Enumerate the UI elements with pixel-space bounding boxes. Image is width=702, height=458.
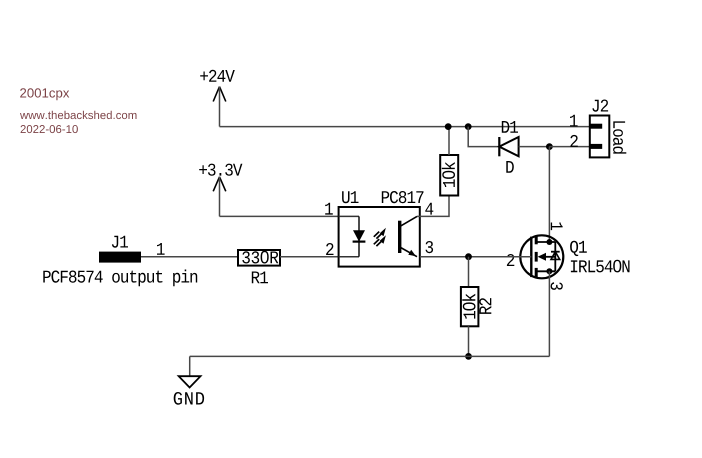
- resistor 10k pull-up: [440, 155, 458, 196]
- diode D1: [499, 137, 518, 156]
- resistor R1 330R: [238, 250, 280, 266]
- pin number 2 of U1: [326, 243, 333, 255]
- value 10k of pull-up resistor: [442, 162, 455, 187]
- wire bottom rail: [190, 355, 550, 357]
- wire +24V rail: [220, 126, 590, 128]
- wire opto internal pin2: [339, 256, 359, 258]
- pin number 2 of J2: [570, 135, 577, 147]
- light arrows inside U1: [374, 228, 386, 246]
- wire drain node to J2 pin2: [549, 146, 589, 148]
- wire opto internal pin1: [339, 215, 359, 217]
- label J2: [592, 100, 608, 112]
- optocoupler U1 box: [339, 207, 420, 267]
- resistor R2 10k: [461, 287, 479, 326]
- label +24V: [200, 70, 235, 82]
- pin number 1 of Q1: [551, 223, 563, 231]
- wire 10k to rail: [448, 127, 450, 155]
- pin number 1 of J1: [157, 243, 165, 255]
- pin number 1 of U1: [325, 203, 333, 215]
- wire source: [548, 271, 550, 356]
- pin number 1 of J2: [570, 115, 578, 127]
- wire opto pin4 to resistor: [417, 196, 449, 217]
- label Q1: [570, 241, 587, 256]
- node junction rail-D1: [465, 123, 472, 130]
- wire +24V stem: [219, 87, 221, 127]
- wire drain node to Q1: [548, 147, 550, 242]
- label R1: [252, 272, 268, 284]
- connector J2: [590, 116, 610, 158]
- connector J1: [99, 252, 141, 263]
- power symbol +3.3V arrow: [213, 177, 226, 192]
- wire rail to D1 cathode: [468, 127, 499, 147]
- node junction bottom rail: [465, 353, 472, 360]
- pin number 2 of Q1: [507, 254, 514, 266]
- label D: [506, 161, 514, 173]
- wire gate: [420, 256, 532, 258]
- label J1: [112, 236, 128, 248]
- label U1: [342, 191, 358, 203]
- label PCF8574 output pin: [43, 270, 197, 287]
- LED inside U1: [353, 216, 366, 256]
- title text 2022-06-10: [21, 125, 78, 133]
- wire J1 to R1: [141, 256, 238, 258]
- wire R1 to opto pin2: [280, 256, 339, 258]
- label Load: [613, 121, 626, 153]
- wire +3.3V to opto pin1: [220, 215, 339, 217]
- value 10k of R2: [462, 294, 475, 319]
- ground: [179, 376, 201, 387]
- label +3.3V: [199, 164, 242, 176]
- wire R2 bottom: [468, 326, 470, 356]
- label IRL540N: [571, 260, 630, 273]
- value 330R: [242, 251, 278, 264]
- label D1: [502, 121, 518, 133]
- label GND: [174, 392, 204, 405]
- node junction drain: [546, 143, 553, 150]
- wire D1 anode to drain node: [519, 146, 550, 148]
- pin number 3 of Q1: [551, 282, 563, 290]
- node junction gate-R2: [465, 253, 472, 260]
- wire to ground: [189, 356, 191, 376]
- label R2: [479, 298, 491, 314]
- power symbol +24V arrow: [213, 87, 226, 102]
- title text www.thebackshed.com: [20, 111, 137, 119]
- pin number 4 of U1: [425, 203, 433, 215]
- node junction rail-10k: [445, 123, 452, 130]
- wire +3.3V stem: [219, 177, 221, 217]
- phototransistor inside U1: [400, 216, 417, 256]
- title text 2001cpx: [20, 88, 69, 100]
- pin number 3 of U1: [426, 241, 434, 253]
- pin stub J2-2: [590, 144, 602, 149]
- wire R2 top: [468, 257, 470, 287]
- pin stub J2-1: [590, 124, 602, 129]
- transistor Q1: [520, 235, 563, 278]
- label PC817: [382, 191, 424, 203]
